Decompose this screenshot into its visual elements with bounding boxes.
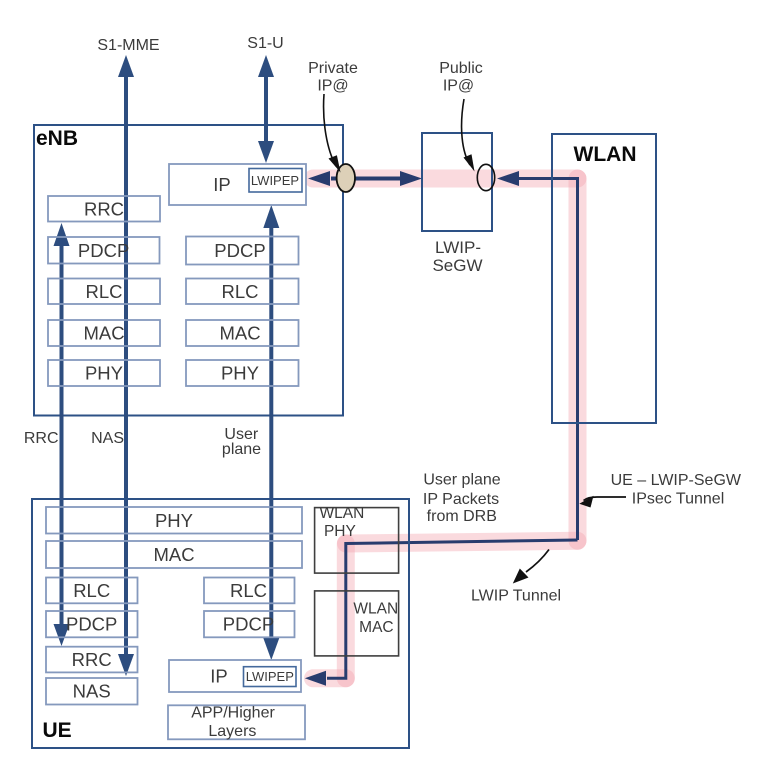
UE box [32, 499, 409, 748]
svg-text:LWIPEP: LWIPEP [246, 669, 294, 684]
UE RLC box right [204, 578, 295, 604]
svg-text:eNB: eNB [36, 127, 78, 150]
svg-text:IP Packets: IP Packets [423, 491, 499, 508]
arrowhead down into UE RRC box [54, 624, 70, 646]
svg-text:LWIPEP: LWIPEP [251, 173, 299, 188]
svg-text:IP: IP [210, 666, 227, 687]
svg-text:PHY: PHY [221, 363, 259, 384]
svg-text:MAC: MAC [83, 323, 124, 344]
svg-text:RLC: RLC [85, 281, 122, 302]
UE WLAN MAC box [315, 591, 399, 656]
pink highlight tunnel path UE vertical [337, 544, 355, 679]
wire tunnel blue: WLAN corner vertical+horizontal [519, 179, 578, 541]
svg-text:S1-MME: S1-MME [97, 37, 159, 54]
arrowhead up into eNB RRC box [54, 223, 70, 246]
svg-text:Layers: Layers [208, 723, 256, 740]
UE PDCP box right [204, 611, 295, 637]
svg-text:NAS: NAS [73, 681, 111, 702]
wire RRC line eNB to UE [60, 245, 64, 625]
svg-text:PHY: PHY [85, 363, 123, 384]
pink highlight tunnel path WLAN vertical [569, 179, 587, 541]
UE IP box [169, 660, 301, 692]
curved arrow corner to LWIP Tunnel label [526, 550, 549, 573]
UE LWIPEP box [244, 667, 297, 687]
svg-text:RLC: RLC [73, 580, 110, 601]
eNB RLC box right [186, 279, 299, 305]
svg-text:MAC: MAC [153, 544, 194, 565]
wire tunnel eNB left segment [331, 177, 345, 181]
eNB box [34, 125, 343, 416]
arrowhead up into eNB IP box bottom [263, 205, 279, 228]
svg-text:RLC: RLC [221, 281, 258, 302]
pink highlight tunnel path top horizontal [313, 170, 578, 188]
svg-text:UE – LWIP-SeGW: UE – LWIP-SeGW [611, 472, 742, 489]
eNB MAC box left [48, 320, 160, 346]
svg-text:SeGW: SeGW [432, 256, 482, 275]
svg-text:Public: Public [439, 60, 483, 77]
svg-text:plane: plane [222, 441, 261, 458]
wire S1-MME / NAS line [124, 76, 128, 654]
svg-text:IP: IP [213, 174, 230, 195]
svg-text:RRC: RRC [72, 649, 112, 670]
svg-text:APP/Higher: APP/Higher [191, 704, 275, 721]
svg-text:RRC: RRC [84, 198, 124, 219]
svg-text:PDCP: PDCP [66, 614, 117, 635]
svg-text:RLC: RLC [230, 580, 267, 601]
eNB IP box [169, 164, 306, 205]
WLAN box [552, 134, 656, 423]
arrowhead right into LWIP-SeGW box [400, 171, 422, 186]
eNB LWIPEP box [249, 169, 302, 193]
pink highlight tunnel path into LWIPEP [313, 669, 346, 687]
arrowhead down into UE NAS box [118, 654, 134, 676]
wire tunnel lower: horizontal + UE vertical + into LWIPEP [327, 540, 578, 678]
svg-text:WLAN: WLAN [320, 505, 365, 522]
svg-text:S1-U: S1-U [247, 35, 283, 52]
UE PHY box [46, 507, 302, 534]
eNB PHY box right [186, 360, 299, 386]
arrowhead left into UE LWIPEP box [305, 671, 326, 686]
svg-text:from DRB: from DRB [427, 508, 497, 525]
svg-text:WLAN: WLAN [353, 601, 398, 618]
svg-text:Private: Private [308, 60, 358, 77]
arrowhead up S1-MME [118, 55, 134, 77]
wire tunnel eNB to SeGW segment [354, 177, 402, 181]
UE APP/Higher Layers box [168, 705, 305, 739]
eNB RLC box left [48, 279, 160, 305]
node Private IP ellipse [337, 164, 355, 192]
eNB PDCP box right [186, 237, 299, 265]
LWIP-SeGW box [422, 133, 492, 231]
pink highlight tunnel path lower horizontal [346, 541, 578, 544]
UE NAS box [46, 678, 138, 705]
UE PDCP box left [46, 611, 138, 637]
svg-text:PHY: PHY [155, 510, 193, 531]
svg-text:PDCP: PDCP [223, 614, 274, 635]
svg-text:MAC: MAC [219, 323, 260, 344]
svg-text:PDCP: PDCP [214, 240, 265, 261]
eNB PDCP box left [48, 237, 160, 264]
UE RLC box left [46, 578, 138, 604]
svg-text:MAC: MAC [359, 619, 393, 636]
svg-text:LWIP-: LWIP- [435, 238, 481, 257]
svg-text:IP@: IP@ [317, 78, 348, 95]
wire S1-U line [264, 76, 268, 141]
svg-text:RRC: RRC [24, 430, 59, 447]
node Public IP ellipse [477, 164, 494, 190]
eNB PHY box left [48, 360, 160, 386]
UE MAC box [46, 541, 302, 568]
svg-text:PHY: PHY [324, 523, 356, 540]
svg-text:IPsec Tunnel: IPsec Tunnel [632, 491, 725, 508]
curved arrow Private IP@ to ellipse [324, 94, 336, 166]
eNB RRC box [48, 196, 160, 222]
svg-text:NAS: NAS [91, 430, 124, 447]
curved arrow IPsec Tunnel label to tunnel line [584, 497, 627, 501]
svg-text:PDCP: PDCP [78, 240, 129, 261]
arrowhead left into eNB IP box [308, 171, 330, 186]
arrowhead left into Public ellipse [497, 171, 519, 186]
svg-text:UE: UE [43, 719, 72, 742]
svg-text:IP@: IP@ [443, 78, 474, 95]
arrowhead down into eNB IP box [258, 141, 274, 163]
svg-text:WLAN: WLAN [574, 143, 637, 166]
curved arrow Public IP@ to ellipse [462, 99, 470, 165]
UE WLAN PHY box [315, 508, 399, 573]
svg-text:User plane: User plane [423, 472, 500, 489]
arrowhead up S1-U [258, 55, 274, 77]
UE RRC box [46, 647, 138, 673]
wire user plane line eNB IP to UE IP [269, 226, 273, 638]
svg-text:LWIP Tunnel: LWIP Tunnel [471, 588, 561, 605]
eNB MAC box right [186, 320, 299, 346]
arrowhead down into UE IP box [263, 638, 279, 660]
